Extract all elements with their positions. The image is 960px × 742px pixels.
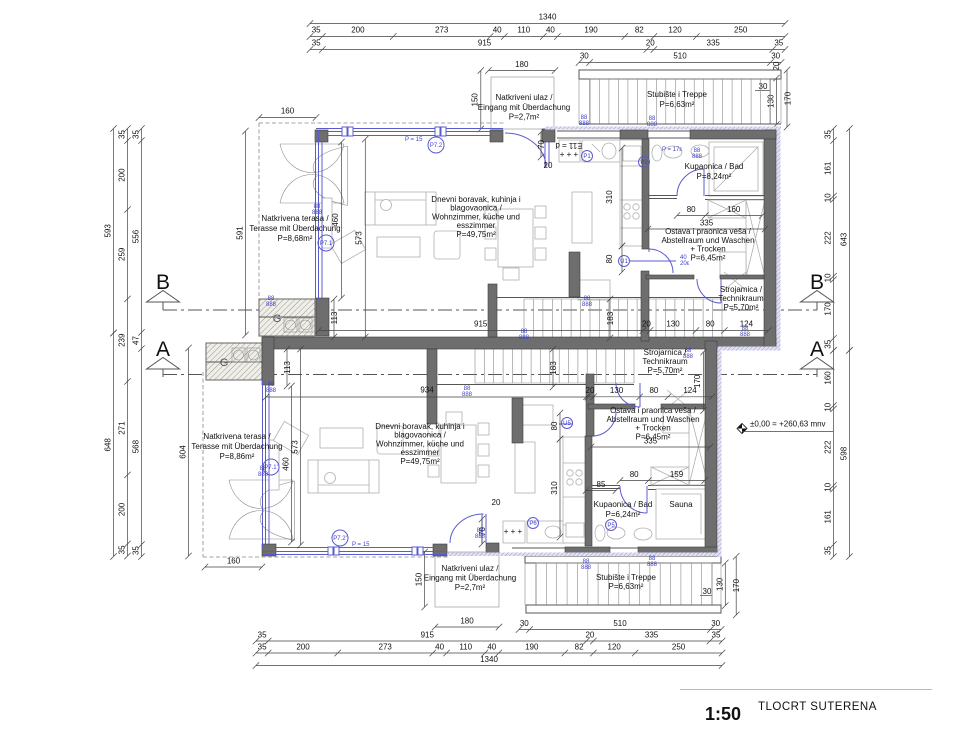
upper stair top wall line <box>497 297 722 299</box>
lower kitchen island <box>515 442 535 493</box>
svg-text:888: 888 <box>740 332 751 338</box>
left dim total 593 <box>110 125 116 336</box>
svg-text:573: 573 <box>355 231 364 245</box>
dim 70 20 lower door <box>479 516 485 547</box>
svg-text:80: 80 <box>706 320 715 329</box>
svg-text:P=49,75m²: P=49,75m² <box>400 457 440 466</box>
svg-text:934: 934 <box>420 386 434 395</box>
svg-text:10: 10 <box>824 482 833 491</box>
svg-text:183: 183 <box>549 361 558 375</box>
svg-text:510: 510 <box>673 52 687 61</box>
svg-text:Strojarnica /: Strojarnica / <box>644 348 687 357</box>
svg-text:604: 604 <box>179 445 188 459</box>
svg-text:P5: P5 <box>607 523 615 529</box>
svg-text:esszimmer: esszimmer <box>401 448 440 457</box>
lower blue window left <box>263 380 270 548</box>
svg-text:30: 30 <box>759 82 768 91</box>
svg-text:1:50: 1:50 <box>705 704 741 724</box>
svg-text:Terasse mit Überdachung: Terasse mit Überdachung <box>191 442 282 451</box>
lower tv cabinet <box>269 440 279 490</box>
svg-text:P=6,24m²: P=6,24m² <box>606 510 641 519</box>
svg-text:Technikraum: Technikraum <box>718 294 764 303</box>
svg-text:Ostava i praonica veša /: Ostava i praonica veša / <box>610 406 697 415</box>
svg-text:180: 180 <box>515 60 529 69</box>
svg-text:40: 40 <box>435 643 444 652</box>
svg-text:120: 120 <box>608 643 622 652</box>
upper top windows thin <box>557 131 690 138</box>
lower unit bottom wall segments <box>565 547 610 556</box>
svg-text:35: 35 <box>824 546 833 555</box>
svg-text:P2: P2 <box>640 160 648 166</box>
upper technikraum door arc <box>697 279 721 303</box>
svg-text:888: 888 <box>581 565 592 571</box>
upper entrance door blue <box>505 133 549 167</box>
svg-text:200: 200 <box>296 643 310 652</box>
svg-text:170: 170 <box>732 578 741 592</box>
svg-text:250: 250 <box>672 643 686 652</box>
svg-text:200: 200 <box>118 168 127 182</box>
section line B <box>163 309 817 311</box>
svg-text:Abstellraum und Waschen: Abstellraum und Waschen <box>606 415 699 424</box>
left dim total 648 <box>110 330 116 560</box>
svg-text:200: 200 <box>118 502 127 516</box>
upper entrance canopy box <box>491 77 554 129</box>
svg-text:160: 160 <box>281 107 295 116</box>
svg-text:30: 30 <box>771 52 780 61</box>
svg-text:80: 80 <box>630 470 639 479</box>
ref P1 <box>582 151 593 162</box>
svg-text:150: 150 <box>415 572 424 586</box>
upper terrace dashed outline <box>259 123 505 336</box>
svg-text:915: 915 <box>474 320 488 329</box>
ref U1 <box>619 256 630 267</box>
svg-text:643: 643 <box>840 232 849 246</box>
left dim 604 <box>185 345 191 559</box>
dim 573 upper <box>362 136 368 340</box>
svg-text:20: 20 <box>772 61 781 70</box>
upper bath lower wall <box>649 196 765 200</box>
dim 934 lower <box>263 394 591 400</box>
svg-text:915: 915 <box>421 631 435 640</box>
svg-text:170: 170 <box>693 374 702 388</box>
svg-text:239: 239 <box>118 333 127 347</box>
svg-text:130: 130 <box>766 94 775 108</box>
ref P2 <box>639 157 650 168</box>
upper internal stair treads <box>524 299 722 338</box>
svg-text:70: 70 <box>537 140 546 149</box>
svg-text:35: 35 <box>312 26 321 35</box>
left dim 591 <box>242 128 248 338</box>
svg-text:80: 80 <box>605 254 614 263</box>
svg-text:888: 888 <box>519 335 530 341</box>
left dim 160 bottom terrace <box>202 564 265 570</box>
lower coffee table <box>320 428 363 448</box>
svg-text:190: 190 <box>525 643 539 652</box>
level mark 0.00 <box>737 424 747 434</box>
lower G planter box <box>206 343 262 380</box>
ref P7.2 <box>428 137 444 153</box>
svg-text:20ε: 20ε <box>680 261 690 267</box>
svg-text:20: 20 <box>544 161 553 170</box>
svg-text:Eingang mit Überdachung: Eingang mit Überdachung <box>424 574 517 583</box>
section line A <box>163 374 817 376</box>
svg-text:P=8,86m²: P=8,86m² <box>220 452 255 461</box>
dim 915 and 20 130 80 124 upper <box>315 327 771 333</box>
upper blue window band top <box>316 129 503 136</box>
window wall posts lower <box>262 544 276 556</box>
svg-text:P7.2': P7.2' <box>333 536 347 542</box>
svg-text:P=49,75m²: P=49,75m² <box>456 230 496 239</box>
right dim chain upper <box>830 125 836 353</box>
right dims at top stair <box>773 75 779 128</box>
svg-text:±0,00 = +260,63 mnv: ±0,00 = +260,63 mnv <box>750 420 826 429</box>
lower entrance canopy box <box>435 552 499 607</box>
lower armchair <box>273 421 308 454</box>
upper shower <box>709 142 763 196</box>
svg-text:130: 130 <box>610 386 624 395</box>
lower entrance label <box>421 549 427 610</box>
svg-text:P=5,70m²: P=5,70m² <box>724 303 759 312</box>
dim 460 upper <box>338 139 344 301</box>
svg-text:P1: P1 <box>583 154 591 160</box>
svg-text:1340: 1340 <box>539 13 557 22</box>
svg-text:Terasse mit Überdachung: Terasse mit Überdachung <box>249 224 340 233</box>
svg-text:Natkrivena terasa /: Natkrivena terasa / <box>203 432 271 441</box>
upper dining table <box>498 209 533 267</box>
svg-text:888: 888 <box>647 122 658 128</box>
svg-text:161: 161 <box>824 510 833 524</box>
svg-text:blagovaonica /: blagovaonica / <box>450 204 502 213</box>
svg-text:82: 82 <box>575 643 584 652</box>
bottom exterior stair <box>525 556 721 563</box>
lower entrance door blue <box>450 514 486 543</box>
svg-text:273: 273 <box>379 643 393 652</box>
lower internal stair treads <box>475 349 634 383</box>
dim 70 20 upper door <box>538 129 544 160</box>
svg-text:598: 598 <box>840 446 849 460</box>
svg-text:30: 30 <box>711 619 720 628</box>
svg-text:P7.2: P7.2 <box>430 143 443 149</box>
svg-text:259: 259 <box>118 247 127 261</box>
svg-text:40: 40 <box>493 26 502 35</box>
svg-text:P7.1: P7.1 <box>320 241 333 247</box>
upper blue window left <box>316 131 323 299</box>
right dim total 598 <box>846 347 852 560</box>
lower unit interior walls <box>585 436 592 546</box>
upper kitchen counter horizontal with sink <box>582 140 620 162</box>
svg-text:P=6,63m²: P=6,63m² <box>660 100 695 109</box>
svg-text:10: 10 <box>824 402 833 411</box>
ref P7.2 lower <box>332 530 348 546</box>
svg-text:Natkriveni ulaz /: Natkriveni ulaz / <box>442 564 500 573</box>
upper coffee table <box>377 237 420 257</box>
svg-text:573: 573 <box>290 440 299 454</box>
svg-text:568: 568 <box>132 439 141 453</box>
svg-text:35: 35 <box>258 631 267 640</box>
lower washing machine <box>663 408 689 433</box>
svg-text:Strojamica /: Strojamica / <box>720 285 763 294</box>
dim 80 upper hall <box>619 243 625 275</box>
svg-text:20: 20 <box>586 386 595 395</box>
top dimension chain row2 <box>307 33 788 39</box>
svg-text:P6: P6 <box>529 521 537 527</box>
upper kitchen meter box <box>559 140 580 162</box>
svg-text:G: G <box>273 313 282 325</box>
svg-text:P=6,45m²: P=6,45m² <box>636 432 671 441</box>
svg-text:1340: 1340 <box>480 655 498 664</box>
bottom dim stair 30 510 30 <box>516 626 725 632</box>
svg-text:200: 200 <box>351 26 365 35</box>
top dim 180 entrance <box>485 67 558 73</box>
lower kitchen counter <box>563 437 587 543</box>
room labels text layer <box>191 90 764 592</box>
upper unit top wall segments <box>620 130 648 139</box>
upper wardrobe closets <box>708 200 746 218</box>
svg-text:20: 20 <box>642 320 651 329</box>
svg-text:310: 310 <box>605 190 614 204</box>
lower dining table <box>441 425 476 483</box>
upper unit right wall <box>764 130 776 349</box>
svg-text:Dnevni boravak, kuhinja i: Dnevni boravak, kuhinja i <box>431 195 521 204</box>
svg-text:35: 35 <box>774 39 783 48</box>
lower unit top-left wall <box>262 337 274 385</box>
svg-text:30: 30 <box>580 52 589 61</box>
svg-text:593: 593 <box>104 224 113 238</box>
svg-text:113: 113 <box>330 311 339 324</box>
ref P6 <box>528 518 539 529</box>
svg-text:40: 40 <box>546 26 555 35</box>
svg-text:888: 888 <box>258 472 269 478</box>
lower technikraum door arc <box>616 383 640 407</box>
svg-text:TLOCRT SUTERENA: TLOCRT SUTERENA <box>758 701 877 713</box>
svg-text:888: 888 <box>692 154 703 160</box>
blue outer membrane right upper <box>777 127 781 351</box>
dim 310 upper <box>619 145 625 249</box>
lower bath upper wall <box>592 486 708 490</box>
svg-text:P=2,7m²: P=2,7m² <box>455 583 486 592</box>
svg-text:888: 888 <box>647 562 658 568</box>
svg-text:P = 15: P = 15 <box>405 137 423 143</box>
svg-text:180: 180 <box>460 617 474 626</box>
dim 80 lower hall <box>557 410 563 442</box>
svg-text:80: 80 <box>687 205 696 214</box>
top dimension chain row4 stair <box>576 59 785 65</box>
lower kitchen counter horizontal <box>503 521 525 543</box>
svg-text:P=5,70m²: P=5,70m² <box>648 366 683 375</box>
svg-text:Stubište i Treppe: Stubište i Treppe <box>596 573 657 582</box>
svg-text:159: 159 <box>670 470 684 479</box>
svg-text:85: 85 <box>597 480 606 489</box>
upper bath door arc <box>677 169 704 196</box>
upper toilet <box>652 145 662 161</box>
lower terrace dashed outline <box>203 372 448 557</box>
svg-text:Ostava i praonica veša /: Ostava i praonica veša / <box>665 227 752 236</box>
svg-text:591: 591 <box>236 226 245 240</box>
svg-text:Wohnzimmer, küche und: Wohnzimmer, küche und <box>432 212 520 221</box>
svg-text:G: G <box>220 357 229 369</box>
upper tv cabinet <box>322 198 332 248</box>
upper washing machine <box>720 252 746 277</box>
svg-text:80: 80 <box>550 421 559 430</box>
svg-text:35: 35 <box>118 545 127 554</box>
right dim chain lower <box>830 347 836 560</box>
svg-text:P=6,63m²: P=6,63m² <box>609 582 644 591</box>
dim 113 lower <box>284 346 290 389</box>
upper armchair <box>330 230 365 263</box>
svg-text:Stubište i Treppe: Stubište i Treppe <box>647 90 708 99</box>
svg-text:Dnevni boravak, kuhinja i: Dnevni boravak, kuhinja i <box>375 422 465 431</box>
svg-text:Natkriveni ulaz /: Natkriveni ulaz / <box>496 93 554 102</box>
svg-text:510: 510 <box>613 619 627 628</box>
upper unit interior walls <box>642 139 649 249</box>
bottom dim row 35 915 20 335 35 <box>253 638 726 644</box>
svg-text:35: 35 <box>132 130 141 139</box>
svg-text:556: 556 <box>132 229 141 243</box>
upper kitchen counter column <box>620 140 644 246</box>
svg-text:160: 160 <box>227 557 241 566</box>
lower wardrobe closets <box>651 467 689 485</box>
bottom dim row2 <box>253 650 726 656</box>
upper hall cupboard <box>578 280 610 300</box>
window wall posts upper <box>315 130 328 142</box>
svg-text:648: 648 <box>104 438 113 452</box>
upper G planter box <box>259 299 315 336</box>
svg-text:110: 110 <box>517 26 530 35</box>
svg-text:35: 35 <box>712 631 721 640</box>
dim 183 upper <box>607 296 613 341</box>
dim 310 lower <box>557 436 563 540</box>
ref P7.1 <box>318 235 334 251</box>
svg-text:888: 888 <box>462 392 473 398</box>
svg-text:Eingang mit Überdachung: Eingang mit Überdachung <box>478 103 571 112</box>
svg-text:160: 160 <box>824 371 833 385</box>
svg-text:161: 161 <box>824 161 833 175</box>
svg-text:310: 310 <box>550 481 559 495</box>
svg-text:35: 35 <box>824 130 833 139</box>
central party wall <box>262 337 776 349</box>
svg-text:+ + +: + + + <box>504 527 523 536</box>
svg-text:Sauna: Sauna <box>669 500 693 509</box>
upper hall door arc <box>649 249 673 273</box>
svg-text:Wohnzimmer, küche und: Wohnzimmer, küche und <box>376 439 464 448</box>
svg-text:273: 273 <box>435 26 449 35</box>
svg-text:20: 20 <box>646 39 655 48</box>
lower bath door arc <box>620 486 647 513</box>
svg-text:Kupaonica / Bad: Kupaonica / Bad <box>685 162 744 171</box>
svg-text:170: 170 <box>783 91 792 105</box>
dim 460 lower <box>288 383 294 545</box>
svg-text:888: 888 <box>582 302 593 308</box>
svg-text:271: 271 <box>118 421 127 435</box>
upper living sofa <box>365 192 436 225</box>
dim 170 lower technikraum <box>700 349 706 414</box>
dim 20 130 80 124 lower <box>583 394 715 400</box>
svg-text:P=2,7m²: P=2,7m² <box>509 113 540 122</box>
svg-text:335: 335 <box>645 631 659 640</box>
upper terrace door swing arcs <box>280 144 344 203</box>
svg-text:222: 222 <box>824 231 833 245</box>
svg-text:80: 80 <box>649 386 658 395</box>
svg-text:10: 10 <box>824 273 833 282</box>
svg-text:Technikraum: Technikraum <box>642 357 688 366</box>
left dim chain B <box>138 125 144 560</box>
ref P7.1 lower <box>263 459 279 475</box>
svg-text:35: 35 <box>258 643 267 652</box>
svg-text:120: 120 <box>668 26 682 35</box>
dim 80 160 335 upper bath <box>674 212 766 218</box>
svg-text:+ Trocken: + Trocken <box>635 424 670 433</box>
sauna <box>656 489 706 539</box>
dim 573 lower <box>297 346 303 548</box>
svg-text:130: 130 <box>715 577 724 591</box>
ref U5 <box>562 418 573 429</box>
svg-text:P=8,24m²: P=8,24m² <box>697 172 732 181</box>
svg-text:+ + +: + + + <box>560 150 579 159</box>
svg-text:888: 888 <box>266 388 277 394</box>
svg-text:250: 250 <box>734 26 748 35</box>
svg-text:110: 110 <box>459 643 472 652</box>
dim 80 159 85 lower bath <box>617 477 708 483</box>
lower bottom windows thin <box>512 548 638 555</box>
lower unit right wall <box>705 341 717 556</box>
left dim chain A <box>124 125 130 559</box>
svg-text:40: 40 <box>487 643 496 652</box>
svg-text:Natkrivena terasa /: Natkrivena terasa / <box>261 214 329 223</box>
svg-text:esszimmer: esszimmer <box>457 221 496 230</box>
svg-text:113: 113 <box>283 361 292 374</box>
svg-text:P = 15: P = 15 <box>352 542 370 548</box>
svg-text:888: 888 <box>475 534 486 540</box>
lower blue window band bottom <box>263 548 447 555</box>
svg-text:130: 130 <box>666 320 680 329</box>
svg-text:20: 20 <box>585 631 594 640</box>
svg-text:915: 915 <box>478 39 492 48</box>
top dimension chain total 1340 <box>307 20 788 26</box>
svg-text:183: 183 <box>606 311 615 325</box>
top dimension chain row3 <box>307 46 788 52</box>
lower hall cupboard <box>521 405 553 425</box>
svg-text:U5: U5 <box>563 421 571 427</box>
svg-text:460: 460 <box>281 457 290 471</box>
window mullion marks <box>328 127 446 555</box>
left dim 160 top terrace <box>256 114 319 120</box>
dim 183 lower <box>550 346 556 390</box>
svg-text:Kupaonica / Bad: Kupaonica / Bad <box>594 500 653 509</box>
svg-text:U1: U1 <box>620 259 628 265</box>
right dim total 643 <box>846 125 852 353</box>
svg-text:335: 335 <box>707 39 721 48</box>
svg-text:20: 20 <box>492 498 501 507</box>
svg-text:10: 10 <box>824 193 833 202</box>
svg-text:30: 30 <box>520 619 529 628</box>
upper kitchen island <box>572 192 592 243</box>
lower side table <box>377 426 403 454</box>
dim 113 upper <box>331 296 337 340</box>
svg-text:35: 35 <box>132 546 141 555</box>
lower hall door arc <box>592 412 616 436</box>
svg-text:888: 888 <box>266 302 277 308</box>
top exterior stair <box>579 70 781 79</box>
title block <box>680 689 932 691</box>
svg-text:160: 160 <box>727 205 741 214</box>
svg-text:47: 47 <box>132 336 141 345</box>
ref P5 <box>606 520 617 531</box>
svg-text:222: 222 <box>824 440 833 454</box>
svg-text:+ Trocken: + Trocken <box>690 245 725 254</box>
lower terrace door swing arcs <box>229 480 293 539</box>
bottom dim total 1340 <box>253 662 725 668</box>
svg-text:Abstellraum und Waschen: Abstellraum und Waschen <box>661 236 754 245</box>
